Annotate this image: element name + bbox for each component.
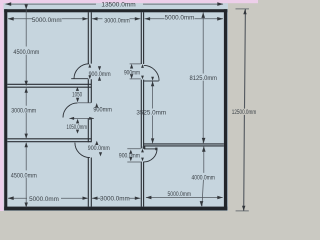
interior wall V1 between door D1 and D2 — [88, 79, 91, 103]
arrow in D5 gap bottom — [141, 158, 144, 162]
arrow door D1 dim lower (points up) — [98, 76, 101, 80]
door D5 hinge blob — [143, 146, 146, 148]
svg-text:900mm: 900mm — [124, 70, 140, 77]
interior wall H2 — [7, 139, 91, 142]
12500 dim bottom tick — [236, 210, 249, 212]
arrow bottom-right dim right end — [217, 196, 223, 199]
svg-text:900.0mm: 900.0mm — [119, 152, 140, 159]
arrow door D5 dim up — [129, 150, 132, 154]
3525 dim line — [152, 81, 154, 143]
door arcs — [63, 64, 159, 162]
arrow door D2 leaf left — [69, 117, 74, 120]
arrow 4000 bottom — [200, 201, 204, 207]
arrow 13500 left — [5, 2, 11, 6]
arrow 4000 top below H3 — [202, 146, 206, 152]
arrow bottom dim V2 left side — [135, 197, 141, 200]
arrow left dim below H1 — [25, 88, 28, 93]
svg-text:12500.0mm: 12500.0mm — [232, 109, 257, 116]
svg-text:4500.0mm: 4500.0mm — [11, 172, 37, 179]
svg-text:900mm: 900mm — [93, 107, 112, 114]
dim row2 3000 segment — [92, 18, 140, 20]
door D4 leaf — [144, 80, 159, 82]
svg-text:5000.0mm: 5000.0mm — [165, 15, 195, 22]
arrow in D1 gap top — [88, 64, 91, 68]
arrow 3525 top — [151, 81, 154, 86]
dim row2 5000 right segment — [145, 18, 223, 20]
door D4 swing arc — [144, 65, 159, 80]
arrow door D3 dim down — [99, 152, 102, 156]
svg-text:3000.0mm: 3000.0mm — [104, 17, 130, 24]
arrow row2 V1 right side — [92, 17, 98, 20]
svg-text:900.0mm: 900.0mm — [89, 71, 111, 78]
svg-text:3525.0mm: 3525.0mm — [136, 110, 166, 117]
bottom-right dim 5000 line — [146, 197, 223, 199]
pink top strip — [0, 0, 258, 3]
left vertical dim line 4500/3000/4500 — [25, 6, 27, 207]
arrow in D4 gap bottom — [141, 76, 144, 80]
arrow left dim bottom — [25, 203, 28, 208]
arrow door D4 dim down — [130, 74, 133, 79]
svg-text:4000.0mm: 4000.0mm — [191, 175, 215, 182]
exterior wall right — [224, 9, 227, 210]
arrow row2 V2 right side — [145, 17, 151, 20]
arrow 1050 above label (points up) — [76, 87, 79, 91]
arrow in D5 gap top — [141, 149, 144, 153]
arrow left dim below H2 — [25, 142, 28, 147]
door D2 leaf dim line — [69, 117, 94, 119]
arrow door D1 dim upper (points down) — [98, 66, 101, 70]
svg-text:3000.0mm: 3000.0mm — [100, 195, 130, 202]
arrow 12500 bottom — [242, 206, 245, 211]
interior wall V2 upper segment — [141, 12, 143, 64]
svg-text:8125.0mm: 8125.0mm — [190, 75, 218, 82]
arrow 1050.0mm below label (points down) — [76, 130, 79, 134]
arrow row2 V1 left side — [83, 17, 89, 20]
door D2 swing arc — [63, 103, 78, 118]
arrow row2 V2 left side — [135, 17, 141, 20]
arrow 8125 top — [201, 12, 205, 18]
arrow row2 right end — [217, 17, 223, 21]
arrow 12500 top — [243, 9, 246, 14]
exterior wall left — [4, 9, 7, 210]
svg-text:1050.0mm: 1050.0mm — [67, 124, 88, 131]
arrow 13500 right — [217, 2, 223, 6]
interior wall V1 lower segment — [88, 158, 91, 207]
door D1 swing arc — [74, 64, 89, 79]
pink left strip — [0, 0, 4, 211]
svg-text:3000.0mm: 3000.0mm — [11, 107, 36, 114]
arrow door D2 1050 top arrow — [76, 98, 79, 103]
arrow left dim above H1 — [25, 81, 28, 86]
svg-text:5000.0mm: 5000.0mm — [168, 191, 192, 198]
svg-text:4500.0mm: 4500.0mm — [13, 49, 39, 56]
arrow 3525 bottom — [151, 138, 154, 143]
gray paper background — [0, 0, 258, 215]
4000 dim line — [202, 146, 204, 206]
door D5 leaf end square — [155, 148, 157, 151]
arrow bottom dim V1 left side — [83, 197, 89, 200]
door D5 swing arc — [144, 149, 157, 162]
blue drawing area — [4, 3, 228, 211]
interior wall V1 between door D2 and D3 — [88, 118, 91, 142]
exterior wall bottom — [4, 207, 227, 211]
8125 dim line — [202, 13, 204, 144]
arrow bottom dim V1 right side — [92, 197, 98, 200]
arrow door D4 leaf tick — [151, 77, 154, 81]
arrow in D4 gap top — [141, 64, 144, 68]
exterior wall top — [4, 9, 227, 12]
svg-text:1050: 1050 — [72, 92, 82, 99]
12500 dim top tick — [236, 8, 250, 10]
arrow 8125 bottom — [202, 138, 206, 144]
door D4 ticks — [130, 64, 141, 79]
bottom-left dim 5000 segment — [8, 197, 88, 199]
svg-text:900.0mm: 900.0mm — [88, 145, 110, 152]
svg-text:5000.0mm: 5000.0mm — [29, 196, 59, 203]
interior wall V2 lower segment — [141, 162, 143, 207]
arrow door D5 dim down — [129, 157, 132, 161]
arrow row2 left — [8, 17, 14, 21]
arrow left dim above H2 — [25, 134, 28, 139]
arrow left dim top (points down above wall) — [25, 5, 28, 10]
arrow door D4 dim up — [130, 64, 133, 69]
arrow in D1 gap bottom — [88, 75, 91, 79]
arrow door D2 dim up — [95, 103, 98, 108]
arrow bottom-right dim left end — [146, 196, 152, 199]
interior wall H1 — [7, 84, 91, 87]
door D5 ticks — [127, 149, 141, 162]
door D2 top tick — [78, 102, 91, 104]
right 12500 dim line — [244, 9, 246, 211]
arrow bottom-left dim left end — [8, 196, 14, 200]
svg-text:5000.0mm: 5000.0mm — [32, 17, 62, 24]
dimension text labels — [11, 1, 256, 203]
bottom-left dim 3000 segment — [92, 197, 140, 199]
dim 13500 top line — [6, 3, 224, 5]
arrow door D2 leaf right — [89, 117, 94, 120]
dimension lines — [6, 4, 250, 211]
interior wall H3 — [144, 144, 224, 146]
interior wall V1 upper segment — [7, 12, 224, 206]
door D1 leaf — [71, 78, 88, 80]
door D5 leaf — [144, 148, 157, 150]
interior wall V2 middle segment — [141, 80, 143, 149]
dim row2 5000 segment — [8, 18, 88, 20]
arrow door D2 1050 bottom arrow — [76, 119, 79, 124]
arrowheads — [5, 2, 247, 210]
arrow door D3 dim up — [95, 141, 98, 145]
svg-text:13500.0mm: 13500.0mm — [101, 1, 135, 8]
door D3 swing arc — [75, 143, 90, 158]
